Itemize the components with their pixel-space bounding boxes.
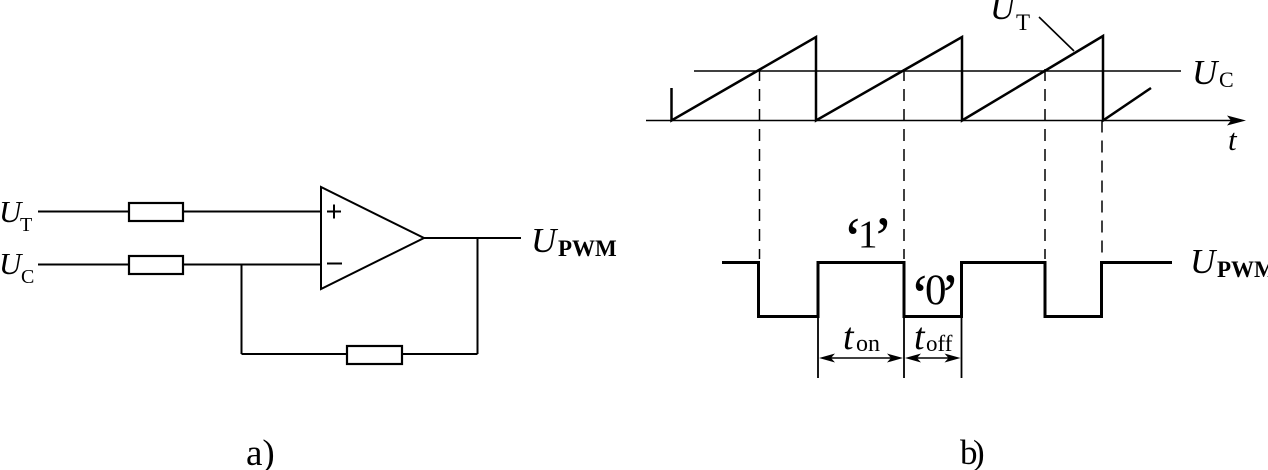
svg-text:t: t [1228, 122, 1238, 157]
svg-text:’: ’ [940, 262, 960, 328]
svg-text:T: T [1016, 10, 1030, 35]
svg-text:PWM: PWM [558, 236, 617, 261]
svg-text:on: on [856, 331, 880, 357]
svg-text:U: U [531, 221, 559, 260]
svg-text:U: U [1192, 53, 1220, 92]
svg-text:C: C [1219, 67, 1234, 92]
svg-text:t: t [914, 316, 926, 358]
svg-text:PWM: PWM [1217, 257, 1268, 282]
svg-text:T: T [20, 214, 32, 236]
svg-text:off: off [926, 331, 953, 356]
svg-text:t: t [843, 316, 855, 358]
svg-text:U: U [990, 0, 1017, 27]
svg-text:): ) [973, 433, 985, 470]
svg-text:a): a) [246, 433, 275, 470]
svg-text:’: ’ [873, 205, 893, 271]
svg-text:U: U [1190, 242, 1218, 281]
svg-text:C: C [21, 266, 34, 288]
